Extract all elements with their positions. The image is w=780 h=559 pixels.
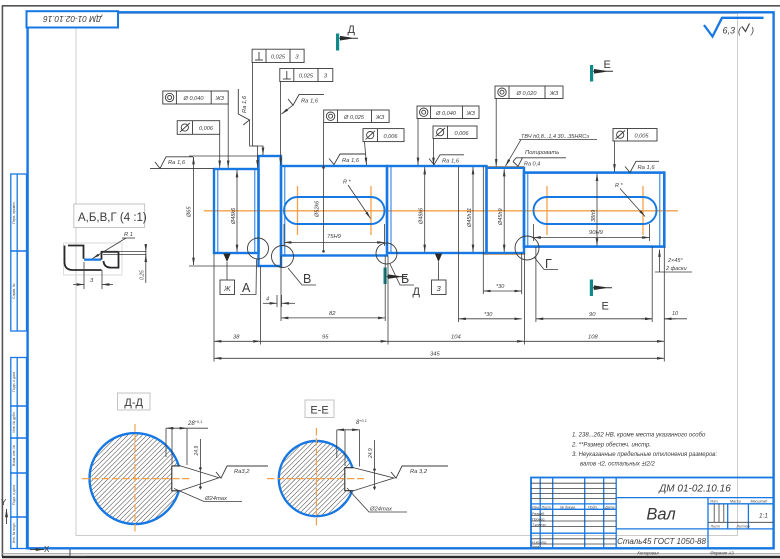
- svg-text:Перв. примен.: Перв. примен.: [12, 201, 16, 224]
- svg-text:ЖЗ: ЖЗ: [465, 111, 475, 117]
- svg-text:Н.контр.: Н.контр.: [532, 540, 547, 544]
- title block labels: [532, 500, 768, 549]
- bottom extension lines: [214, 167, 664, 362]
- svg-text:0,025: 0,025: [271, 54, 286, 60]
- section D-D dim 28+0.1: [166, 428, 187, 465]
- roughness R6 on s5 top: [625, 161, 659, 172]
- svg-text:82: 82: [329, 311, 336, 317]
- dim *30 upper: [483, 290, 521, 292]
- roughness R3 on s2 top: [329, 154, 366, 165]
- svg-text:Лист: Лист: [710, 524, 720, 528]
- svg-text:Лит.: Лит.: [709, 500, 718, 504]
- svg-text:*30: *30: [484, 312, 493, 318]
- svg-text:Масштаб: Масштаб: [751, 500, 769, 504]
- svg-text:38: 38: [233, 335, 240, 341]
- svg-text:Ra 1,6: Ra 1,6: [638, 165, 656, 171]
- keyway slot 1: [284, 197, 385, 224]
- svg-text:Лист: Лист: [541, 505, 551, 509]
- shaft section s2: [281, 166, 387, 256]
- dim 3 under groove: [83, 262, 85, 289]
- technical notes: [571, 433, 717, 468]
- svg-text:№ докум.: № докум.: [560, 505, 576, 509]
- svg-text:ЖЗ: ЖЗ: [375, 115, 385, 121]
- outer dark border bottom thick: [2, 556, 780, 558]
- svg-text:А,Б,В,Г (4 :1): А,Б,В,Г (4 :1): [78, 212, 147, 224]
- svg-text:Д: Д: [348, 24, 356, 36]
- svg-text:ТВЧ h0,8...1,4 30...35HRCэ: ТВЧ h0,8...1,4 30...35HRCэ: [521, 134, 589, 140]
- roughness R2 with leader to F4 ext line: [288, 95, 324, 106]
- F4 leader: [280, 82, 282, 166]
- title block thin row lines: [531, 483, 774, 544]
- top-left designation box: [27, 11, 119, 27]
- GD&T frame F7 concentricity 0.020: [495, 86, 563, 99]
- F3 leader: [253, 63, 263, 151]
- svg-text:24,9: 24,9: [368, 448, 374, 459]
- svg-text:90: 90: [589, 312, 596, 318]
- section marker D bottom: [384, 268, 421, 299]
- diameter dim D2 shoulder with ext lines: [189, 155, 259, 157]
- svg-text:1. 238...262 НВ, кроме места у: 1. 238...262 НВ, кроме места указанного …: [572, 433, 706, 439]
- svg-text:10: 10: [672, 311, 679, 317]
- keyway slot 2: [534, 197, 657, 224]
- svg-text:Ø 0,025: Ø 0,025: [343, 115, 365, 121]
- svg-text:Подп.: Подп.: [588, 505, 598, 509]
- label A blue: [240, 260, 257, 296]
- GD&T frame F10 runout 0.006: [363, 129, 404, 142]
- svg-text:Масса: Масса: [730, 500, 741, 504]
- label Б blue: [390, 264, 414, 286]
- dim 0.25 right: [145, 252, 147, 284]
- GD&T frame F9 concentricity 0.025: [324, 110, 389, 123]
- shaft section s3: [387, 166, 487, 253]
- GD&T frame F2 runout 0.006: [177, 121, 220, 135]
- svg-text:Т.контр.: Т.контр.: [532, 523, 547, 527]
- F1/F2 leaders: [227, 104, 229, 168]
- label Г blue: [535, 257, 559, 271]
- shaft section s1: [214, 169, 259, 253]
- svg-text:Ø48k6: Ø48k6: [231, 207, 237, 225]
- svg-text:З: З: [437, 286, 442, 293]
- svg-text:Копировал: Копировал: [637, 551, 659, 556]
- diameter dim D7 s5: [596, 174, 598, 246]
- svg-text:Ra 1,6: Ra 1,6: [242, 95, 248, 113]
- outer dark border bottom thin: [2, 553, 780, 555]
- section D-D label box: [118, 393, 151, 410]
- svg-text:Ø45h9: Ø45h9: [498, 208, 504, 226]
- top-right general roughness mark: [704, 18, 764, 37]
- svg-text:Ra 1,6: Ra 1,6: [301, 99, 319, 105]
- s1 chamfer lines: [217, 169, 219, 253]
- diameter dim D5: [472, 167, 474, 252]
- svg-text:З: З: [324, 74, 328, 80]
- section D-D vertical dim: [199, 439, 201, 490]
- datum 2 triangle and box: [432, 254, 447, 295]
- svg-text:Д: Д: [413, 286, 421, 298]
- roughness R1 on s1 left: [150, 157, 214, 169]
- svg-text:ЖЗ: ЖЗ: [549, 91, 559, 97]
- svg-text:0,006: 0,006: [455, 131, 470, 137]
- svg-text:Y: Y: [1, 498, 7, 507]
- svg-text:ДМ 01-02.10.16: ДМ 01-02.10.16: [43, 14, 103, 23]
- svg-text:108: 108: [588, 335, 598, 341]
- svg-text:Ra 3,2: Ra 3,2: [410, 469, 428, 475]
- svg-text:Б: Б: [401, 272, 409, 286]
- roughness R7 rotated on shoulder ext: [238, 89, 249, 125]
- svg-text:75Н9: 75Н9: [327, 234, 342, 240]
- svg-text:Дата: Дата: [604, 505, 614, 509]
- svg-text:90Н9: 90Н9: [589, 230, 604, 236]
- svg-text:Ø 0,020: Ø 0,020: [516, 91, 538, 97]
- svg-text:4: 4: [266, 297, 269, 303]
- svg-text:Ø45h11: Ø45h11: [467, 208, 473, 228]
- svg-text:Ø65: Ø65: [187, 206, 193, 218]
- svg-text:А: А: [242, 281, 251, 295]
- svg-text:Подп. и дата: Подп. и дата: [12, 372, 16, 392]
- dim *30 lower: [459, 318, 522, 320]
- svg-text:Д-Д: Д-Д: [124, 397, 143, 409]
- svg-text:Ø52k6: Ø52k6: [315, 200, 321, 218]
- svg-text:Ø24max: Ø24max: [204, 496, 228, 502]
- light gray content boundary rect: [76, 14, 738, 536]
- shaft section s5: [524, 173, 664, 247]
- section E-E keyway notch: [345, 468, 356, 491]
- svg-text:Ø24max: Ø24max: [369, 506, 393, 512]
- label B blue: [288, 268, 316, 286]
- groove profile right step: [102, 252, 119, 260]
- svg-text:2×45°: 2×45°: [667, 258, 683, 264]
- svg-text:24,9: 24,9: [194, 446, 200, 457]
- svg-text:Вал: Вал: [646, 506, 675, 524]
- GD&T frame F4 perpendicularity: [280, 69, 333, 82]
- dim 345 overall: [214, 357, 664, 359]
- svg-text:Е: Е: [602, 301, 609, 313]
- svg-text:Ra 0,4: Ra 0,4: [524, 161, 540, 167]
- s3 chamfer line: [390, 166, 392, 253]
- outer dark border left: [1, 6, 3, 558]
- svg-text:R *: R *: [615, 183, 624, 189]
- shoulder: [259, 156, 282, 266]
- groove profile upper-left step: [68, 246, 84, 259]
- title block: [531, 478, 774, 549]
- svg-text:0,005: 0,005: [635, 134, 650, 140]
- hardening zone orange lines on section s4: [486, 166, 524, 168]
- svg-text:Ra 1,6: Ra 1,6: [342, 158, 360, 164]
- s2 chamfer line: [284, 166, 286, 256]
- shaft section s4: [487, 168, 525, 253]
- svg-text:0,006: 0,006: [384, 134, 399, 140]
- detail circle Б: [376, 243, 397, 264]
- section E-E dia leader: [347, 488, 407, 512]
- GD&T frame F3 perpendicularity: [252, 49, 304, 62]
- shaft centerline: [204, 210, 678, 212]
- svg-text:345: 345: [430, 352, 440, 358]
- svg-text:З: З: [295, 54, 299, 60]
- svg-text:X: X: [44, 545, 50, 554]
- datum 1 triangle and box: [220, 254, 235, 295]
- svg-text:Разраб.: Разраб.: [532, 512, 545, 516]
- svg-text:ДМ 01-02.10.16: ДМ 01-02.10.16: [658, 484, 731, 495]
- svg-text:Ж: Ж: [223, 286, 231, 293]
- diameter dim D3 s2: [323, 123, 325, 252]
- svg-text:2. **Размер обеспеч. инстр.: 2. **Размер обеспеч. инстр.: [571, 442, 651, 448]
- GD&T frame F5 concentricity 0.040: [417, 106, 479, 119]
- section D-D roughness leaders: [180, 466, 219, 491]
- svg-text:Сталь45 ГОСТ 1050-88: Сталь45 ГОСТ 1050-88: [617, 537, 706, 546]
- svg-text:Провер.: Провер.: [532, 517, 545, 521]
- svg-text:*30: *30: [496, 284, 505, 290]
- corner origin mark: [70, 549, 86, 557]
- GD&T frame F8 runout 0.005: [613, 129, 657, 142]
- svg-text:Ø 0,040: Ø 0,040: [435, 111, 457, 117]
- svg-text:Утв.: Утв.: [532, 545, 540, 549]
- section E-E label box: [305, 400, 334, 418]
- svg-text:В: В: [303, 272, 311, 286]
- svg-text:1:1: 1:1: [759, 513, 768, 520]
- svg-text:2 фаски: 2 фаски: [665, 266, 687, 272]
- s5 chamfer lines: [527, 173, 529, 247]
- svg-text:R 1: R 1: [124, 232, 133, 238]
- section marker E bottom: [590, 280, 612, 313]
- keyway length dim 75H9: [283, 224, 285, 246]
- svg-text:Изм.: Изм.: [532, 505, 540, 509]
- left margin stamp boxes: [11, 174, 27, 549]
- svg-text:Г: Г: [545, 257, 552, 271]
- section marker E top: [590, 59, 613, 82]
- svg-text:Взам. инв. №: Взам. инв. №: [12, 445, 16, 466]
- dim 95: [261, 340, 388, 342]
- dim 108: [525, 340, 665, 342]
- svg-text:Листов: Листов: [736, 524, 750, 528]
- svg-text:Инв. № подл.: Инв. № подл.: [12, 522, 16, 543]
- dim 38: [214, 340, 261, 342]
- detail circle A: [248, 238, 269, 259]
- outer dark border top: [2, 5, 780, 7]
- dim 10 (arrows outside): [664, 318, 687, 320]
- svg-text:Ø 0,040: Ø 0,040: [183, 96, 205, 102]
- svg-text:ЖЗ: ЖЗ: [214, 96, 224, 102]
- dim 82: [281, 317, 385, 319]
- section E-E vertical dim: [374, 440, 376, 490]
- section D-D circle hatched: [90, 433, 181, 524]
- section E-E dim 8+0.1: [337, 430, 360, 467]
- GD&T frame F6 runout 0.006: [433, 126, 477, 139]
- section D-D dia leader: [174, 489, 242, 502]
- section D-D centerlines: [82, 478, 190, 480]
- svg-text:): ): [750, 26, 754, 36]
- svg-text:95: 95: [322, 335, 329, 341]
- detail circle B: [272, 246, 294, 268]
- svg-text:6,3: 6,3: [723, 26, 736, 36]
- GD&T frame F1 concentricity 0.040: [163, 91, 228, 104]
- svg-text:Е-Е: Е-Е: [310, 404, 328, 416]
- svg-text:Ra3,2: Ra3,2: [234, 469, 250, 475]
- svg-text:Ra 1,6: Ra 1,6: [168, 160, 186, 166]
- svg-text:3. Неуказанные предельные откл: 3. Неуказанные предельные отклонения раз…: [572, 452, 717, 458]
- section E-E circle hatched: [279, 441, 354, 516]
- dim 90: [536, 318, 652, 320]
- detail view label ABVG 4:1: [74, 204, 145, 228]
- section marker D top: [336, 24, 358, 51]
- dim 104: [388, 340, 525, 342]
- svg-text:Полировать: Полировать: [525, 150, 559, 156]
- svg-text:Ra 1,6: Ra 1,6: [442, 158, 460, 164]
- svg-text:38h9: 38h9: [591, 210, 597, 222]
- svg-text:0,25: 0,25: [140, 270, 146, 280]
- diameter dim D1 s1: [236, 170, 238, 252]
- section E-E roughness leaders: [354, 468, 395, 491]
- groove lower contour left: [65, 246, 102, 271]
- svg-text:Формат А3: Формат А3: [710, 551, 734, 556]
- roughness R4 on s3 top: [429, 155, 464, 165]
- keyway length dim 90H9: [533, 224, 535, 241]
- detail view groove profile box: [64, 243, 123, 275]
- svg-text:0,006: 0,006: [199, 126, 214, 132]
- surface ext thin double lines: [103, 251, 147, 253]
- svg-text:Е: Е: [604, 59, 611, 71]
- diameter dim D6 s4: [503, 169, 505, 252]
- svg-text:0,025: 0,025: [299, 74, 314, 80]
- detail circle Г: [515, 236, 539, 260]
- section E-E centerlines: [267, 478, 364, 480]
- groove bottom blue fillet: [84, 259, 101, 261]
- svg-text:Инв. № дубл.: Инв. № дубл.: [12, 411, 16, 432]
- svg-text:Подп. и дата: Подп. и дата: [12, 485, 16, 505]
- keyway1 arc-center ticks: [298, 186, 644, 235]
- groove lower contour right: [104, 252, 119, 268]
- svg-text:валов -t2, остальных ±t2/2: валов -t2, остальных ±t2/2: [580, 462, 656, 468]
- svg-text:104: 104: [451, 335, 461, 341]
- svg-text:Справ. №: Справ. №: [12, 283, 16, 299]
- diameter dim D4 s3: [424, 167, 426, 252]
- svg-text:Ø48k6: Ø48k6: [419, 207, 425, 225]
- svg-text:R *: R *: [343, 180, 352, 186]
- section D-D keyway notch: [172, 466, 185, 491]
